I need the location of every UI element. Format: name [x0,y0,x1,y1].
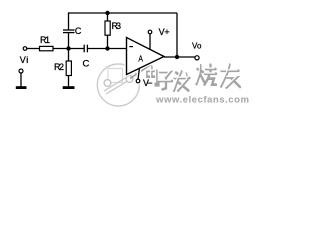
V- wire [138,68,140,79]
烧 [197,65,217,85]
svg-text:www.elecfans.com: www.elecfans.com [155,94,249,105]
svg-text:R2: R2 [54,62,64,72]
Vi ground stem [20,73,22,87]
友 [221,65,240,88]
发 [174,71,190,90]
resistor R3 [105,21,110,35]
capacitor C1 plates [63,29,75,31]
svg-text:V−: V− [143,78,153,88]
terminal V- [136,79,140,83]
watermark logo pencil [104,72,135,94]
feedback vertical wire [176,13,178,57]
node R3 top junction [105,11,109,15]
watermark logo circle [97,64,139,106]
top feedback wire [21,12,195,86]
resistor R1 [40,46,54,50]
电 [147,67,159,86]
svg-text:A: A [138,55,143,64]
svg-text:Vi: Vi [20,55,29,65]
watermark CJK text 电子发烧友 [147,65,241,91]
wire R1 to C2 [53,48,84,50]
svg-text:C: C [83,59,90,70]
op-amp minus sign [129,46,133,48]
子 [159,72,173,89]
node input junction [66,46,70,50]
resistor R2 [66,61,71,76]
terminal V+ [148,30,152,34]
terminal Vi input [23,47,27,51]
circuit white halo [127,13,200,87]
watermark logo square [108,69,123,83]
svg-text:R3: R3 [112,21,122,31]
node output junction [175,55,179,59]
terminal Vi ground [19,69,23,73]
ground (R2) [63,86,75,89]
V+ wire [149,34,151,50]
svg-text:Vo: Vo [192,42,202,51]
watermark logo pencil tip [130,65,151,79]
input wire [27,48,40,50]
ground (input) [16,86,27,89]
wire C2 to op-amp [87,48,126,50]
node C2/R3 junction [105,46,109,50]
svg-text:V+: V+ [159,27,170,37]
terminal Vo output [195,56,199,60]
capacitor C1 branch top wire [68,12,70,29]
R2 branch wire [68,49,70,62]
watermark CJK white emboss [146,64,238,90]
svg-text:C: C [75,26,82,36]
R3 branch wires [107,13,109,21]
op-amp A [127,38,165,75]
capacitor C2 plates [83,45,85,53]
output wire [164,56,195,58]
capacitor C1 bottom wire [68,33,70,48]
svg-text:R1: R1 [40,35,50,45]
